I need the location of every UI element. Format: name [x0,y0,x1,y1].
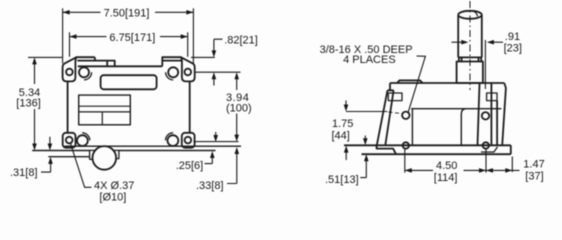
ear bottom-right boss [168,135,179,146]
dim 3.94 dimension line [236,77,238,136]
side view lower-left tapped hole [403,142,409,148]
side view left pilot box [388,93,402,101]
bottom line L3 right [119,150,216,152]
side view right column line 2 [490,83,492,145]
svg-text:[136]: [136] [16,97,40,109]
left view top step and clip block [95,57,115,66]
dim 7.50 left extension line [62,8,64,63]
arrowhead 7.50 left [63,10,70,15]
arrowhead .82 up [212,72,217,79]
arrowhead .51 up [364,154,369,161]
side view plunger foot left [459,57,462,61]
arrowhead 3.94 up [234,72,239,79]
bottom center boss circle [93,146,117,170]
ear bottom-right hole [185,137,192,144]
dim 4.50 left extension line [404,149,406,173]
arrowhead 1.75 down lower [344,146,349,153]
arrowhead 1.75 down upper [344,105,349,112]
side view plunger left edge [457,16,459,58]
side view upper-left tapped hole [402,112,409,119]
dim 7.50 right extension line [192,8,194,63]
arrowhead .91 right [487,40,494,45]
side view top-left corner [388,83,391,90]
svg-text:.51[13]: .51[13] [325,174,359,186]
side view flange top [344,144,511,146]
dim 5.34 top extension line [28,56,62,58]
svg-text:.82[21]: .82[21] [224,34,258,46]
svg-text:.33[8]: .33[8] [196,180,224,192]
ear top-left hole [66,69,73,76]
dim 1.75 extension line [346,111,387,113]
dim .31 upper arrow shaft [49,137,51,145]
side view flange right edge [510,145,512,154]
arrowhead 4.50 right [479,168,486,173]
dim 1.75 upper arrow shaft [345,101,347,108]
ear top-left boss [79,67,89,77]
ear top-right lobe [181,57,195,81]
arrowhead .25 down [213,135,218,142]
dim .82 leader and arrows [214,39,223,85]
ear top-right fillet arc [166,72,174,80]
side view plunger foot right [479,57,482,61]
plunger top inner seam arc [466,10,478,16]
svg-text:1.75: 1.75 [332,118,353,130]
arrowhead .31 up [48,157,53,164]
arrowhead 5.34 up [32,57,37,64]
svg-text:6.75[171]: 6.75[171] [109,32,155,44]
ear bottom-right fillet arc [166,133,174,141]
svg-text:4.50: 4.50 [436,160,457,172]
side view inner curve edge [461,109,465,146]
leader 3/8-16 tapped holes [408,56,425,113]
arrowhead .91 left [461,40,468,45]
ear bottom-left boss [77,135,88,146]
dim .25 upper arrow shaft [215,132,217,136]
side view plunger bottom edge [458,56,482,58]
ear top-left fillet arc [84,72,92,80]
side view lower-right tapped hole [483,142,489,148]
dim .91 right arrow shaft [493,41,503,43]
arrowhead 6.75 right [181,34,188,39]
bottom hole center line L1 [194,141,239,143]
bottom line L3 left [32,150,90,152]
svg-text:[Ø10]: [Ø10] [99,191,126,203]
dim 6.75 dimension line [70,36,188,38]
svg-text:[23]: [23] [504,42,522,54]
ear top-left lobe [63,57,77,81]
side view flange left foot shelf [377,145,396,154]
dim 1.47 right extension line [511,157,513,173]
arrowhead 6.75 left [70,34,77,39]
arrowhead .25 up [210,151,215,158]
dim 7.50 dimension line [63,11,194,13]
label table row line 2 [79,111,131,113]
ear bottom-left lobe [63,133,76,148]
svg-text:4 PLACES: 4 PLACES [343,54,396,66]
arrowhead 1.47 right [505,168,512,173]
bottom line L4 [48,156,90,158]
left view raised top bar left [76,57,95,60]
arrowhead 7.50 right [186,10,193,15]
dim 4.50 right extension line [485,149,487,173]
side view right column line 1 [478,84,480,145]
dim .33 bracket [227,153,237,184]
svg-text:1.47: 1.47 [523,158,544,170]
side view flange bottom [362,153,511,155]
side view right pilot box [487,93,497,101]
side view left column inner slant [385,90,393,145]
dim .82 lower extension line (top hole center) [195,71,241,73]
dim 1.75 hidden line to hole [389,112,403,114]
ear top-right hole [185,69,192,76]
label table row line 1 [79,105,131,107]
dim 5.34 dimension line [34,63,36,145]
side view inner vertical from pilot box [496,101,498,146]
ear top-right boss [168,67,178,77]
side view plunger right edge [481,16,483,58]
svg-text:(100): (100) [226,102,252,114]
dim 6.75 left extension line [69,32,71,57]
ear bottom-right lobe [182,133,195,148]
dim .91 left arrow shaft [451,41,463,43]
side view right edge [502,83,506,145]
dim 4.50 dimension line [405,169,486,171]
side view plunger top ellipse [458,11,482,19]
boss clamp left [90,150,95,159]
ear bottom-left fillet arc [82,133,90,141]
side view flange right foot shelf [481,147,498,152]
side view collar [457,62,483,84]
dim .91 extension line [484,40,486,89]
side view upper-right tapped hole [482,112,489,119]
plunger centerline [469,1,471,90]
arrowhead .33 up [235,147,240,154]
arrowhead .51 down [363,138,368,145]
ear bottom-left hole [66,137,73,144]
side view face edge below parting line [411,109,413,146]
label table column line [101,112,103,125]
svg-text:[44]: [44] [332,130,350,142]
svg-text:.25[6]: .25[6] [176,160,204,172]
dim 6.75 right extension line [187,32,189,57]
nameplate rounded rect [101,75,157,89]
side view top bump [397,80,423,83]
svg-text:7.50[191]: 7.50[191] [104,7,150,19]
left view body right edge [189,82,191,133]
dim .51 upper arrow shaft [364,136,366,141]
arrowhead .82 down [212,50,217,57]
svg-text:[37]: [37] [525,171,543,183]
left view body left edge [67,82,69,133]
left view raised top bar right [162,57,181,66]
bottom line L2 body bottom [65,145,242,147]
dim 1.75 lower arrow shaft [345,150,347,161]
boss clamp right [115,150,119,158]
leader 4X dia .37 [70,143,91,188]
arrowhead 5.34 down [32,144,37,151]
dim .82 upper extension line [191,56,215,58]
side view head parting line [411,108,501,110]
dim 1.47 dimension line [486,169,520,171]
dim .51 bracket [360,161,366,178]
dim .31 bracket [41,163,51,173]
svg-text:.91: .91 [505,31,520,43]
svg-text:.31[8]: .31[8] [10,167,38,179]
side view left column outer slant [377,90,388,145]
left view body top edge [78,65,163,67]
dim .25 bracket [205,157,213,164]
arrowhead .31 down [48,144,53,151]
arrowhead 4.50 left [405,168,412,173]
arrowhead 1.47 left [486,168,493,173]
arrowhead 3.94 down [234,135,239,142]
side view body top edge [390,82,504,84]
svg-text:4X Ø.37: 4X Ø.37 [94,180,134,192]
label table outline [79,95,131,125]
svg-text:[114]: [114] [434,172,458,184]
